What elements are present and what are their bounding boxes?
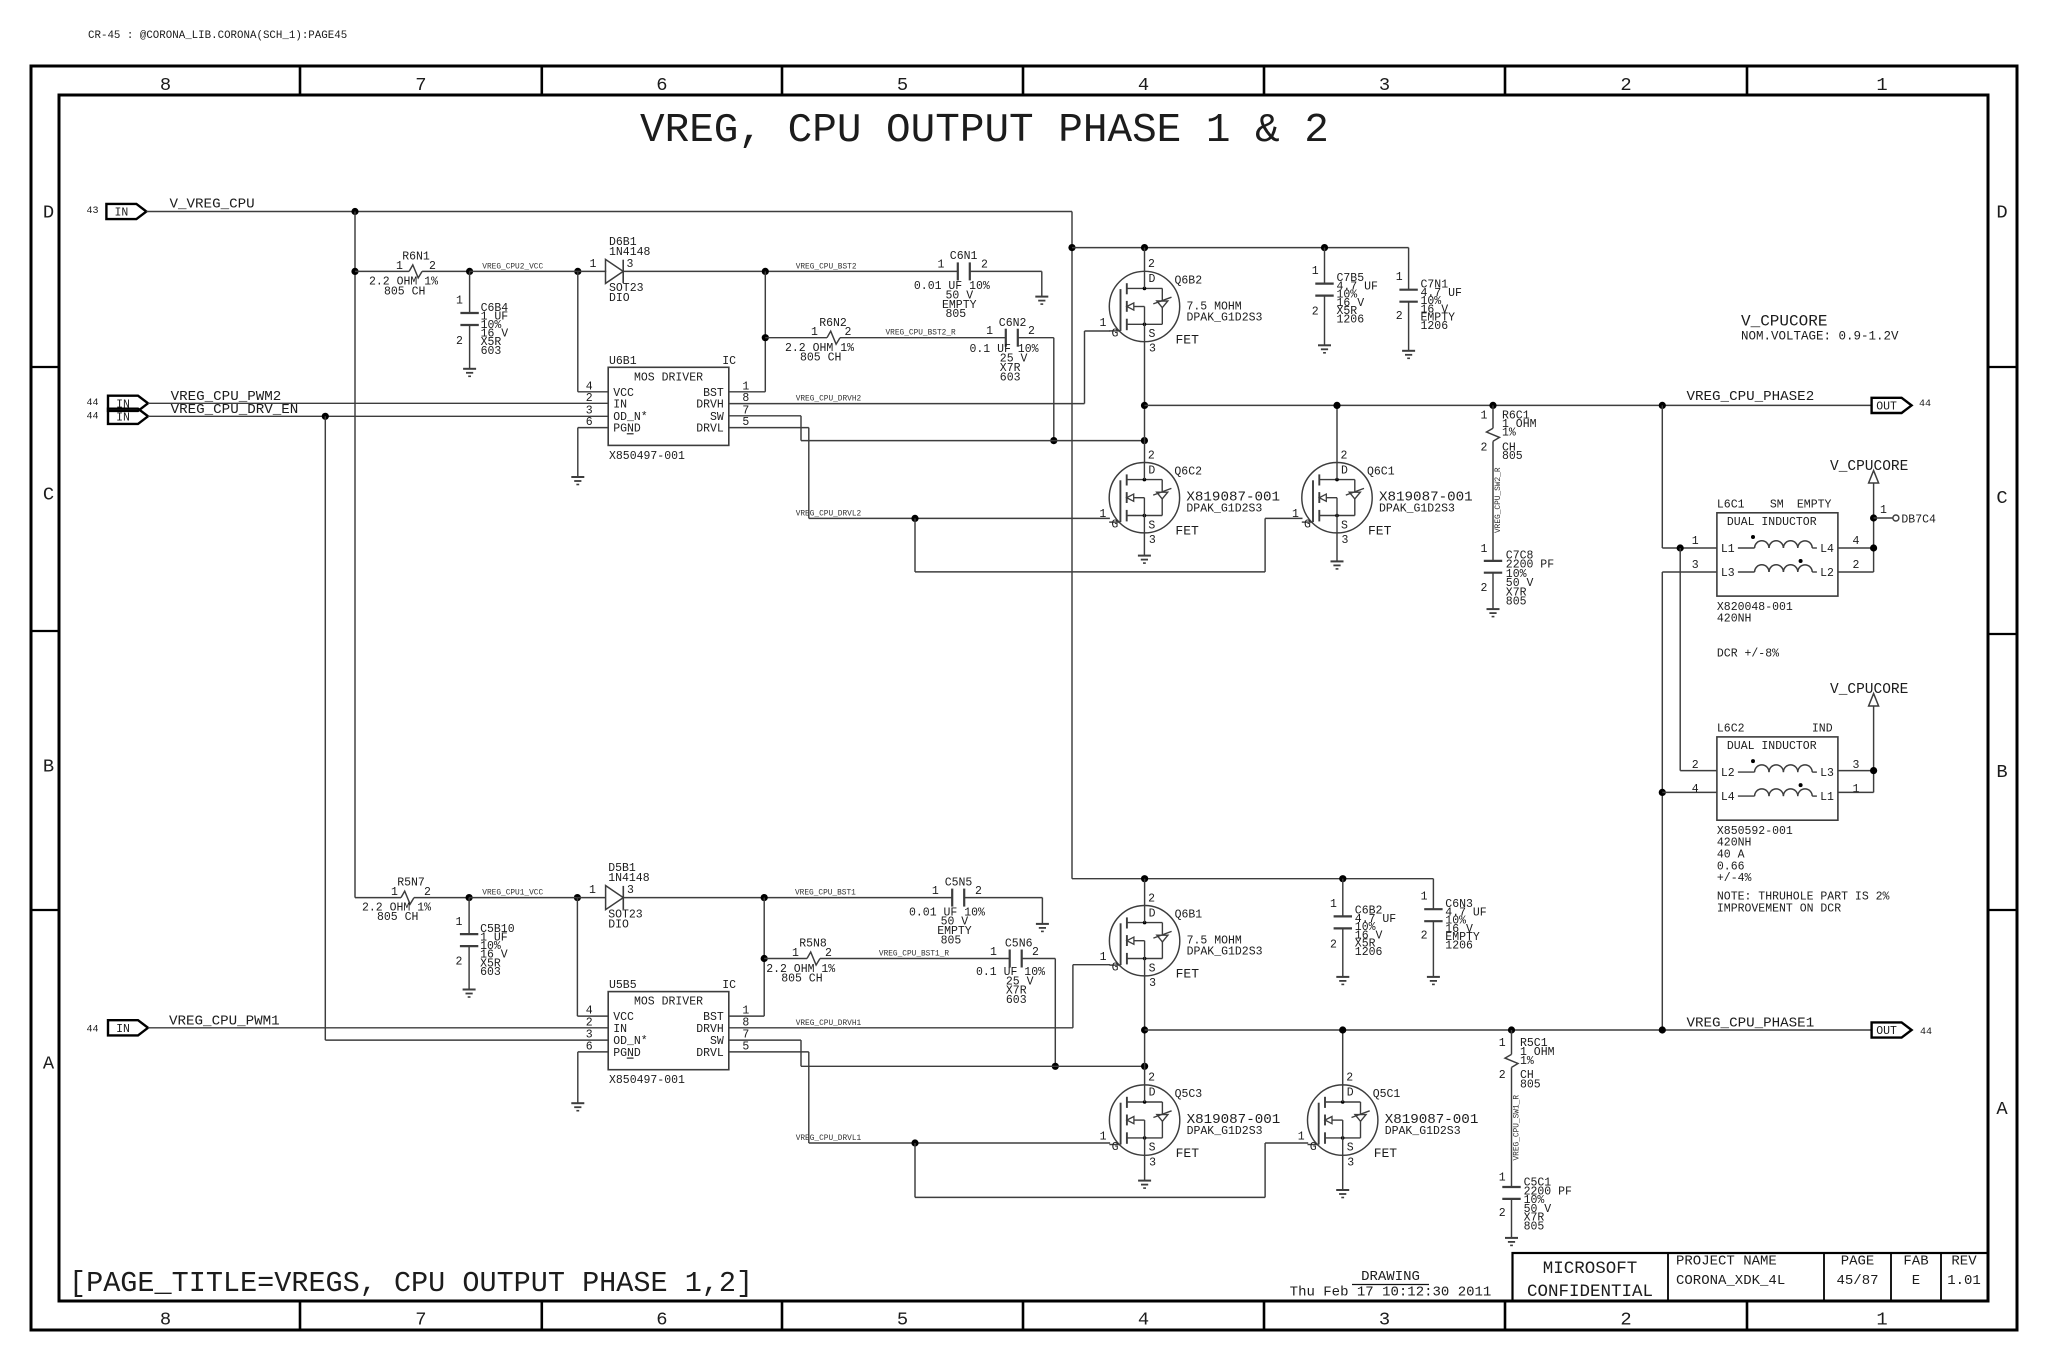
svg-text:D: D xyxy=(1341,464,1348,477)
svg-text:2: 2 xyxy=(1499,1069,1506,1082)
svg-text:1: 1 xyxy=(1499,1172,1506,1185)
svg-text:2: 2 xyxy=(424,886,431,899)
svg-text:E: E xyxy=(1912,1273,1920,1289)
svg-text:Thu Feb 17 10:12:30 2011: Thu Feb 17 10:12:30 2011 xyxy=(1290,1285,1492,1301)
svg-text:IND: IND xyxy=(1812,722,1833,735)
svg-text:4: 4 xyxy=(1692,783,1699,796)
svg-text:8: 8 xyxy=(160,1309,171,1331)
svg-text:PROJECT NAME: PROJECT NAME xyxy=(1676,1254,1777,1270)
svg-text:VREG_CPU2_VCC: VREG_CPU2_VCC xyxy=(482,263,543,271)
svg-text:3: 3 xyxy=(1379,1309,1390,1331)
svg-text:L2: L2 xyxy=(1820,567,1834,580)
svg-text:5: 5 xyxy=(897,74,908,96)
svg-text:NOM.VOLTAGE: 0.9-1.2V: NOM.VOLTAGE: 0.9-1.2V xyxy=(1741,330,1899,344)
svg-text:1.01: 1.01 xyxy=(1947,1273,1981,1289)
svg-text:+/-4%: +/-4% xyxy=(1717,872,1752,885)
svg-text:1: 1 xyxy=(589,884,596,897)
svg-text:1: 1 xyxy=(1298,1131,1305,1144)
svg-text:2: 2 xyxy=(1692,759,1699,772)
svg-text:D: D xyxy=(1149,273,1156,286)
svg-text:2: 2 xyxy=(1346,1072,1353,1085)
svg-text:603: 603 xyxy=(481,345,502,358)
svg-text:805: 805 xyxy=(1524,1221,1545,1234)
svg-text:2: 2 xyxy=(1341,449,1348,462)
svg-text:1: 1 xyxy=(1312,265,1319,278)
svg-text:D: D xyxy=(1148,464,1155,477)
svg-text:L3: L3 xyxy=(1721,567,1735,580)
svg-text:44: 44 xyxy=(86,411,98,422)
svg-text:VREG_CPU_DRVL1: VREG_CPU_DRVL1 xyxy=(796,1135,862,1143)
svg-text:3: 3 xyxy=(627,258,634,271)
svg-text:DB7C4: DB7C4 xyxy=(1901,514,1936,527)
svg-text:805: 805 xyxy=(1502,450,1523,463)
svg-text:VREG_CPU_BST1: VREG_CPU_BST1 xyxy=(795,890,856,898)
svg-text:G: G xyxy=(1112,328,1119,341)
svg-text:7: 7 xyxy=(415,74,426,96)
svg-text:S: S xyxy=(1148,519,1155,532)
svg-text:DPAK_G1D2S3: DPAK_G1D2S3 xyxy=(1379,503,1455,516)
svg-text:1: 1 xyxy=(792,947,799,960)
svg-text:Q6C1: Q6C1 xyxy=(1367,466,1395,479)
svg-text:1%: 1% xyxy=(1502,426,1516,439)
svg-text:L4: L4 xyxy=(1820,543,1834,556)
svg-text:D: D xyxy=(1347,1087,1354,1100)
svg-text:3: 3 xyxy=(1149,1156,1156,1169)
svg-text:CORONA_XDK_4L: CORONA_XDK_4L xyxy=(1676,1273,1785,1289)
svg-text:S: S xyxy=(1149,962,1156,975)
svg-text:V_CPUCORE: V_CPUCORE xyxy=(1830,682,1908,698)
svg-text:S: S xyxy=(1149,1142,1156,1155)
svg-text:2: 2 xyxy=(456,335,463,348)
svg-text:1: 1 xyxy=(1692,535,1699,548)
svg-text:2: 2 xyxy=(1620,74,1631,96)
svg-text:MOS DRIVER: MOS DRIVER xyxy=(634,996,703,1009)
svg-text:7: 7 xyxy=(415,1309,426,1331)
svg-text:MICROSOFT: MICROSOFT xyxy=(1543,1259,1638,1279)
svg-text:V_VREG_CPU: V_VREG_CPU xyxy=(170,197,255,213)
svg-text:805 CH: 805 CH xyxy=(377,911,418,924)
svg-text:MOS DRIVER: MOS DRIVER xyxy=(634,371,703,384)
svg-text:IC: IC xyxy=(722,979,736,992)
svg-text:805 CH: 805 CH xyxy=(781,972,822,985)
svg-text:805: 805 xyxy=(946,308,967,321)
svg-text:S: S xyxy=(1341,519,1348,532)
svg-text:1: 1 xyxy=(986,325,993,338)
svg-text:1: 1 xyxy=(455,916,462,929)
svg-text:805: 805 xyxy=(941,935,962,948)
svg-text:2: 2 xyxy=(1480,582,1487,595)
svg-text:DPAK_G1D2S3: DPAK_G1D2S3 xyxy=(1385,1125,1461,1138)
svg-text:DUAL INDUCTOR: DUAL INDUCTOR xyxy=(1727,740,1817,753)
svg-text:DRVH: DRVH xyxy=(696,399,724,412)
svg-text:1: 1 xyxy=(990,946,997,959)
svg-text:L2: L2 xyxy=(1721,767,1735,780)
svg-text:1%: 1% xyxy=(1520,1055,1534,1068)
svg-text:DRVH: DRVH xyxy=(696,1023,724,1036)
svg-text:1: 1 xyxy=(1880,504,1887,517)
svg-text:44: 44 xyxy=(86,1024,98,1035)
svg-text:Q5C3: Q5C3 xyxy=(1175,1088,1203,1101)
svg-text:L3: L3 xyxy=(1820,767,1834,780)
svg-text:1: 1 xyxy=(1421,891,1428,904)
svg-text:1: 1 xyxy=(811,326,818,339)
svg-text:1: 1 xyxy=(1099,508,1106,521)
svg-text:2: 2 xyxy=(1421,930,1428,943)
svg-text:A: A xyxy=(1996,1098,2008,1120)
svg-text:603: 603 xyxy=(1006,994,1027,1007)
svg-text:4: 4 xyxy=(1138,1309,1149,1331)
svg-text:1: 1 xyxy=(1852,783,1859,796)
svg-text:D: D xyxy=(1149,907,1156,920)
svg-text:[PAGE_TITLE=VREGS, CPU OUTPUT: [PAGE_TITLE=VREGS, CPU OUTPUT PHASE 1,2] xyxy=(69,1267,753,1300)
svg-text:SM: SM xyxy=(1770,498,1784,511)
svg-text:3: 3 xyxy=(1149,343,1156,356)
svg-text:2: 2 xyxy=(429,260,436,273)
svg-text:DPAK_G1D2S3: DPAK_G1D2S3 xyxy=(1186,503,1262,516)
svg-text:IN: IN xyxy=(116,412,130,425)
svg-text:2: 2 xyxy=(1312,306,1319,319)
svg-text:DPAK_G1D2S3: DPAK_G1D2S3 xyxy=(1187,312,1263,325)
svg-text:805: 805 xyxy=(1520,1079,1541,1092)
svg-text:C: C xyxy=(43,484,54,506)
svg-text:2: 2 xyxy=(1028,325,1035,338)
svg-text:2: 2 xyxy=(825,947,832,960)
svg-text:Q6B1: Q6B1 xyxy=(1175,909,1203,922)
svg-text:U5B5: U5B5 xyxy=(609,979,637,992)
svg-text:C6N1: C6N1 xyxy=(950,250,978,263)
svg-text:805: 805 xyxy=(1506,596,1527,609)
svg-text:1N4148: 1N4148 xyxy=(609,246,651,259)
svg-text:44: 44 xyxy=(86,398,98,409)
svg-text:2: 2 xyxy=(1480,441,1487,454)
svg-text:2: 2 xyxy=(1396,310,1403,323)
svg-text:C: C xyxy=(1996,487,2007,509)
svg-text:DPAK_G1D2S3: DPAK_G1D2S3 xyxy=(1187,946,1263,959)
svg-text:2: 2 xyxy=(981,259,988,272)
svg-text:R6N1: R6N1 xyxy=(402,251,430,264)
svg-text:L4: L4 xyxy=(1721,791,1735,804)
svg-text:FET: FET xyxy=(1175,524,1199,539)
svg-text:IN: IN xyxy=(613,1023,627,1036)
svg-text:1: 1 xyxy=(932,885,939,898)
svg-text:DIO: DIO xyxy=(608,919,629,932)
svg-text:C5N6: C5N6 xyxy=(1005,938,1033,951)
svg-text:Q6C2: Q6C2 xyxy=(1174,466,1202,479)
svg-text:44: 44 xyxy=(1919,399,1931,410)
svg-text:2: 2 xyxy=(1620,1309,1631,1331)
svg-text:OUT: OUT xyxy=(1876,401,1897,414)
svg-text:2: 2 xyxy=(1148,258,1155,271)
svg-text:1: 1 xyxy=(456,295,463,308)
svg-text:G: G xyxy=(1111,519,1118,532)
svg-text:8: 8 xyxy=(160,74,171,96)
svg-text:IMPROVEMENT ON DCR: IMPROVEMENT ON DCR xyxy=(1717,902,1841,915)
svg-text:1: 1 xyxy=(1876,74,1887,96)
svg-text:X850497-001: X850497-001 xyxy=(609,1074,685,1087)
svg-text:3: 3 xyxy=(1149,534,1156,547)
svg-text:1: 1 xyxy=(938,259,945,272)
svg-text:FAB: FAB xyxy=(1903,1254,1928,1270)
svg-text:PAGE: PAGE xyxy=(1841,1254,1875,1270)
svg-text:VREG_CPU_BST1_R: VREG_CPU_BST1_R xyxy=(879,951,950,959)
svg-text:DRAWING: DRAWING xyxy=(1361,1269,1420,1285)
svg-text:6: 6 xyxy=(656,74,667,96)
svg-text:G: G xyxy=(1304,519,1311,532)
svg-text:1: 1 xyxy=(1499,1037,1506,1050)
svg-text:VREG_CPU1_VCC: VREG_CPU1_VCC xyxy=(482,890,543,898)
svg-text:1206: 1206 xyxy=(1421,320,1449,333)
svg-text:VREG_CPU_DRVL2: VREG_CPU_DRVL2 xyxy=(796,510,862,518)
svg-text:805 CH: 805 CH xyxy=(800,351,841,364)
svg-text:45/87: 45/87 xyxy=(1836,1273,1878,1289)
svg-text:D: D xyxy=(43,202,54,224)
svg-text:2: 2 xyxy=(1330,939,1337,952)
svg-text:2: 2 xyxy=(1499,1207,1506,1220)
svg-text:1N4148: 1N4148 xyxy=(608,872,650,885)
svg-text:D: D xyxy=(1996,202,2007,224)
svg-text:1: 1 xyxy=(1100,1131,1107,1144)
svg-text:4: 4 xyxy=(1852,535,1859,548)
svg-text:1: 1 xyxy=(391,886,398,899)
svg-text:L1: L1 xyxy=(1820,791,1834,804)
svg-text:G: G xyxy=(1112,1141,1119,1154)
svg-text:VREG_CPU_SW1_R: VREG_CPU_SW1_R xyxy=(1514,1095,1522,1161)
svg-text:805 CH: 805 CH xyxy=(384,286,425,299)
svg-text:D: D xyxy=(1149,1087,1156,1100)
svg-text:A: A xyxy=(43,1053,55,1075)
svg-text:1: 1 xyxy=(1292,508,1299,521)
svg-text:VREG_CPU_SW2_R: VREG_CPU_SW2_R xyxy=(1495,467,1503,533)
svg-text:R5N8: R5N8 xyxy=(799,938,827,951)
svg-text:L6C1: L6C1 xyxy=(1717,498,1745,511)
svg-text:IN: IN xyxy=(116,1023,130,1036)
svg-text:1206: 1206 xyxy=(1355,946,1383,959)
svg-text:VREG_CPU_BST2_R: VREG_CPU_BST2_R xyxy=(886,329,957,337)
svg-text:2: 2 xyxy=(975,885,982,898)
svg-text:VREG_CPU_PHASE2: VREG_CPU_PHASE2 xyxy=(1687,389,1815,405)
svg-text:2: 2 xyxy=(455,956,462,969)
svg-text:Q6B2: Q6B2 xyxy=(1175,275,1203,288)
svg-text:DRVL: DRVL xyxy=(696,423,724,436)
svg-text:VREG_CPU_DRVH2: VREG_CPU_DRVH2 xyxy=(796,396,862,404)
svg-text:IN: IN xyxy=(613,399,627,412)
svg-text:FET: FET xyxy=(1176,967,1200,982)
svg-text:1: 1 xyxy=(1396,271,1403,284)
svg-text:603: 603 xyxy=(1000,371,1021,384)
svg-text:CR-45 : @CORONA_LIB.CORONA(SCH: CR-45 : @CORONA_LIB.CORONA(SCH_1):PAGE45 xyxy=(88,30,347,42)
svg-text:EMPTY: EMPTY xyxy=(1797,498,1832,511)
svg-text:3: 3 xyxy=(1342,534,1349,547)
svg-text:6: 6 xyxy=(656,1309,667,1331)
svg-text:C6N2: C6N2 xyxy=(999,317,1027,330)
svg-text:1206: 1206 xyxy=(1337,314,1365,327)
svg-text:420NH: 420NH xyxy=(1717,613,1752,626)
svg-text:2: 2 xyxy=(1148,449,1155,462)
svg-text:1: 1 xyxy=(396,260,403,273)
svg-text:B: B xyxy=(1996,761,2007,783)
svg-text:3: 3 xyxy=(627,884,634,897)
svg-text:V_CPUCORE: V_CPUCORE xyxy=(1741,313,1827,331)
svg-text:FET: FET xyxy=(1176,1146,1200,1161)
svg-text:VREG_CPU_DRVH1: VREG_CPU_DRVH1 xyxy=(796,1020,862,1028)
svg-text:43: 43 xyxy=(86,206,98,217)
svg-text:DPAK_G1D2S3: DPAK_G1D2S3 xyxy=(1187,1125,1263,1138)
svg-text:S: S xyxy=(1347,1142,1354,1155)
svg-text:603: 603 xyxy=(480,966,501,979)
svg-text:2: 2 xyxy=(1032,946,1039,959)
svg-text:4: 4 xyxy=(1138,74,1149,96)
svg-text:IN: IN xyxy=(114,207,128,220)
svg-text:FET: FET xyxy=(1368,524,1392,539)
svg-text:L1: L1 xyxy=(1721,543,1735,556)
svg-text:2: 2 xyxy=(1148,892,1155,905)
svg-text:R5N7: R5N7 xyxy=(397,877,425,890)
svg-text:VREG, CPU OUTPUT PHASE 1 & 2: VREG, CPU OUTPUT PHASE 1 & 2 xyxy=(640,108,1329,154)
svg-text:1: 1 xyxy=(1100,951,1107,964)
svg-text:DIO: DIO xyxy=(609,292,630,305)
svg-text:C5N5: C5N5 xyxy=(945,877,973,890)
svg-text:L6C2: L6C2 xyxy=(1717,722,1745,735)
svg-text:3: 3 xyxy=(1149,977,1156,990)
svg-text:1: 1 xyxy=(1480,543,1487,556)
svg-text:U6B1: U6B1 xyxy=(609,355,637,368)
svg-text:B: B xyxy=(43,756,54,778)
svg-text:V_CPUCORE: V_CPUCORE xyxy=(1830,459,1908,475)
svg-text:REV: REV xyxy=(1951,1254,1977,1270)
svg-text:S: S xyxy=(1149,328,1156,341)
svg-text:2: 2 xyxy=(1852,559,1859,572)
svg-text:DUAL INDUCTOR: DUAL INDUCTOR xyxy=(1727,516,1817,529)
svg-text:OUT: OUT xyxy=(1876,1025,1897,1038)
svg-text:1: 1 xyxy=(1100,317,1107,330)
svg-text:DCR +/-8%: DCR +/-8% xyxy=(1717,648,1779,661)
svg-text:3: 3 xyxy=(1692,559,1699,572)
svg-text:R6N2: R6N2 xyxy=(819,317,847,330)
svg-text:1: 1 xyxy=(1330,898,1337,911)
svg-text:1: 1 xyxy=(590,258,597,271)
svg-text:CONFIDENTIAL: CONFIDENTIAL xyxy=(1527,1282,1653,1302)
svg-text:FET: FET xyxy=(1374,1146,1398,1161)
svg-text:1: 1 xyxy=(1480,409,1487,422)
svg-text:3: 3 xyxy=(1347,1156,1354,1169)
svg-text:3: 3 xyxy=(1379,74,1390,96)
svg-text:FET: FET xyxy=(1176,333,1200,348)
svg-text:1: 1 xyxy=(1876,1309,1887,1331)
svg-text:44: 44 xyxy=(1920,1027,1932,1038)
svg-text:VREG_CPU_PHASE1: VREG_CPU_PHASE1 xyxy=(1687,1016,1815,1032)
svg-text:DRVL: DRVL xyxy=(696,1047,724,1060)
svg-text:X850497-001: X850497-001 xyxy=(609,450,685,463)
svg-text:G: G xyxy=(1112,962,1119,975)
svg-text:5: 5 xyxy=(897,1309,908,1331)
svg-text:Q5C1: Q5C1 xyxy=(1373,1088,1401,1101)
svg-text:G: G xyxy=(1310,1141,1317,1154)
svg-text:VREG_CPU_BST2: VREG_CPU_BST2 xyxy=(796,263,857,271)
svg-text:2: 2 xyxy=(845,326,852,339)
svg-text:1206: 1206 xyxy=(1445,940,1473,953)
svg-text:2: 2 xyxy=(1148,1072,1155,1085)
svg-text:IC: IC xyxy=(722,355,736,368)
